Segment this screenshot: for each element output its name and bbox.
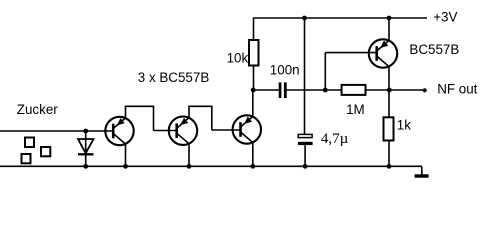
transistor Q4 BC557B xyxy=(369,39,397,67)
wire +3V top rail xyxy=(254,17,428,19)
node NF out terminal xyxy=(423,88,427,92)
wire node A to 100n xyxy=(253,89,279,91)
wire 100n to node B xyxy=(287,89,342,91)
svg-text:3 x BC557B: 3 x BC557B xyxy=(138,70,210,85)
wire Q3 base lead xyxy=(212,129,241,131)
wire Q2 link down to Q3 base xyxy=(211,106,213,131)
wire node C down to 1k xyxy=(388,90,390,117)
wire Q2 collector to ground rail xyxy=(188,143,190,166)
svg-text:NF out: NF out xyxy=(437,82,477,97)
capacitor 100n right plate xyxy=(284,82,287,98)
wire Q3 emitter up to 10k node xyxy=(252,90,254,117)
svg-text:100n: 100n xyxy=(270,62,300,77)
wire 1k down to ground rail xyxy=(388,141,390,167)
wire top rail down to Q4 emitter xyxy=(388,18,390,41)
svg-text:1k: 1k xyxy=(397,117,411,132)
ground xyxy=(415,166,429,176)
node diode anode / top sensor wire junction xyxy=(83,129,88,134)
wire Q1 emitter up leg xyxy=(125,106,127,118)
capacitor 4,7µ negative plate (filled) xyxy=(298,142,313,145)
transistor Q3 BC557B xyxy=(233,115,261,143)
wire Q2 emitter up leg xyxy=(188,106,190,118)
sensor electrode square 2 (sugar crystal) xyxy=(41,147,50,156)
wire Q1 collector to ground rail xyxy=(125,144,127,167)
node top rail / 4,7µ branch junction xyxy=(302,16,307,21)
node 4,7µ / ground rail junction xyxy=(303,164,308,169)
resistor 1M xyxy=(342,85,366,95)
node 1k / ground rail junction xyxy=(387,164,392,169)
svg-text:10k: 10k xyxy=(227,50,249,65)
resistor 1k xyxy=(384,117,394,140)
resistor 10k xyxy=(249,40,259,66)
capacitor 4,7µ positive plate (hollow) xyxy=(298,134,312,137)
node top rail / Q4 emitter junction xyxy=(387,16,392,21)
wire Q2 emitter link horizontal xyxy=(188,105,212,107)
transistor Q2 BC557B xyxy=(169,117,197,145)
wire 4,7µ down to ground rail xyxy=(304,145,306,166)
wire 10k down to node A xyxy=(253,66,255,91)
wire top rail down to 4,7µ (crosses NF line) xyxy=(304,18,306,134)
wire 1M to node C xyxy=(366,89,425,91)
svg-text:+3V: +3V xyxy=(433,10,457,25)
diode D1 xyxy=(78,131,94,166)
node Q2 collector / ground rail junction xyxy=(187,164,192,169)
transistor Q1 BC557B xyxy=(105,117,133,145)
node Q1 collector / ground rail junction xyxy=(123,164,128,169)
svg-text:4,7µ: 4,7µ xyxy=(321,131,349,147)
svg-text:1M: 1M xyxy=(346,102,365,117)
node B (100n / Q4 base / 1M) xyxy=(323,88,328,93)
wire ground bottom rail xyxy=(0,165,422,167)
node A (10k / Q3 emitter / 100n) xyxy=(251,88,256,93)
svg-text:BC557B: BC557B xyxy=(409,42,459,57)
node diode cathode / ground rail junction xyxy=(83,164,88,169)
wire Q1 emitter link horizontal xyxy=(125,105,154,107)
wire top rail down to 10k xyxy=(253,18,255,41)
svg-text:Zucker: Zucker xyxy=(17,102,58,117)
sensor electrode square 3 (sugar crystal) xyxy=(22,154,31,163)
wire sensor top (Zucker electrode to Q1 base) xyxy=(0,130,113,132)
wire node B up to Q4 base level xyxy=(324,53,326,90)
node C (Q4 collector / 1M / 1k / NF out) xyxy=(387,88,392,93)
wire Q4 base lead xyxy=(325,52,376,54)
wire Q4 collector down to node C xyxy=(388,66,390,90)
wire Q2 base lead xyxy=(154,130,177,132)
capacitor 100n left plate xyxy=(279,82,282,98)
node Q3 collector / ground rail junction xyxy=(250,164,255,169)
wire Q1 link down to Q2 base xyxy=(153,106,155,131)
wire Q3 collector to ground rail xyxy=(252,142,254,166)
sensor electrode square 1 (sugar crystal) xyxy=(25,138,34,148)
